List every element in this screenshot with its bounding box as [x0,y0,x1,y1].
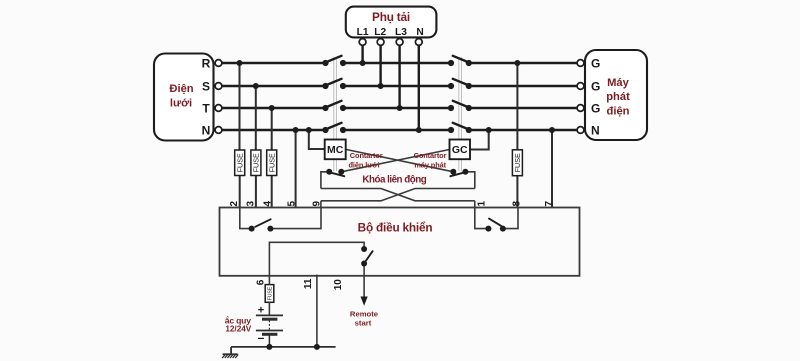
svg-text:Bộ điều khiển: Bộ điều khiển [358,221,433,235]
svg-text:12/24V: 12/24V [225,325,251,334]
svg-text:Máy: Máy [607,77,630,89]
svg-text:L2: L2 [374,27,386,38]
svg-text:R: R [202,56,211,70]
svg-text:start: start [355,318,372,327]
svg-text:FUSE: FUSE [513,153,522,172]
svg-text:7: 7 [544,200,555,206]
svg-text:+: + [258,305,264,317]
svg-text:FUSE: FUSE [252,153,261,172]
svg-text:Contartor: Contartor [350,151,383,160]
svg-text:G: G [591,79,600,93]
svg-text:5: 5 [287,200,298,206]
svg-text:6: 6 [256,279,267,285]
svg-text:máy phát: máy phát [414,161,446,170]
svg-text:9: 9 [312,200,323,206]
svg-text:FUSE: FUSE [235,153,244,172]
svg-text:N: N [202,123,211,137]
svg-text:Phụ tải: Phụ tải [372,10,410,24]
svg-text:Remote: Remote [350,309,379,318]
svg-text:10: 10 [333,279,344,291]
svg-text:MC: MC [327,144,344,156]
svg-text:T: T [202,101,210,115]
svg-text:S: S [202,79,210,93]
svg-text:Khóa liên động: Khóa liên động [362,174,426,185]
svg-text:2: 2 [229,200,240,206]
svg-text:N: N [591,123,600,137]
svg-text:Điện: Điện [169,83,193,95]
svg-text:L3: L3 [395,27,407,38]
svg-text:3: 3 [246,200,257,206]
svg-text:4: 4 [262,200,273,206]
svg-text:–: – [258,331,265,345]
svg-text:8: 8 [511,200,522,206]
svg-text:G: G [591,56,600,70]
svg-text:Contartor: Contartor [414,151,447,160]
svg-text:FUSE: FUSE [267,286,273,300]
svg-text:FUSE: FUSE [267,153,276,172]
svg-text:phát: phát [606,91,630,103]
svg-text:GC: GC [452,144,468,156]
svg-text:điện: điện [607,105,630,117]
svg-text:11: 11 [303,278,314,289]
svg-text:điện lưới: điện lưới [348,161,379,170]
svg-text:1: 1 [477,200,488,206]
svg-text:G: G [591,101,600,115]
svg-text:lưới: lưới [170,98,192,110]
svg-text:N: N [416,27,423,38]
svg-text:L1: L1 [357,27,369,38]
